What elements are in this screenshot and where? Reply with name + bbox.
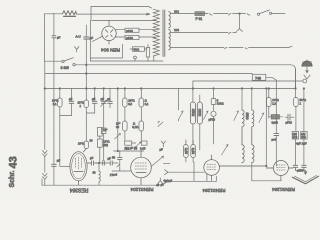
junction bus x60 <box>59 88 61 90</box>
svg-text:μ+5: μ+5 <box>272 138 277 142</box>
resistor R17 box <box>292 132 298 166</box>
switch S2 chevron <box>158 122 163 127</box>
junction bus x235 <box>241 88 243 90</box>
IF transformer T2 winding b <box>197 95 202 150</box>
svg-text:μF: μF <box>57 36 61 40</box>
svg-text:μF13: μF13 <box>209 118 216 122</box>
wire: link 86-94 bottom <box>86 112 94 114</box>
resistor R10 <box>139 89 144 122</box>
antenna symbol AE <box>302 60 312 79</box>
svg-text:μF: μF <box>101 97 105 101</box>
svg-text:10⁴Ω: 10⁴Ω <box>78 142 84 146</box>
connector arrow at y172 <box>165 170 169 175</box>
jack J1 fork <box>75 47 80 53</box>
junction bus x141 <box>141 88 143 90</box>
wire: H line y64.8 to right edge with corner down <box>75 65 295 89</box>
switch S605 <box>45 58 75 66</box>
svg-text:μF: μF <box>160 148 164 152</box>
jack chevrons J4 left rail x42 <box>41 179 43 185</box>
svg-text:0502: 0502 <box>191 109 195 117</box>
svg-text:(14): (14) <box>293 135 298 139</box>
svg-text:F 61: F 61 <box>196 17 203 21</box>
wire: R6-C3 bottom link <box>60 115 72 117</box>
capacitor C10 <box>293 165 298 167</box>
transformer T1 core <box>163 10 165 57</box>
transformer T1 primary winding <box>153 9 159 61</box>
svg-text:μ100: μ100 <box>126 29 133 33</box>
resistor R14 <box>211 89 216 112</box>
svg-text:0,1Ω: 0,1Ω <box>132 125 138 129</box>
wire: tap 2 <box>171 32 229 34</box>
svg-text:748: 748 <box>255 76 261 80</box>
tube V5 RENS1264 <box>266 161 293 181</box>
junction bus x266 <box>266 88 268 90</box>
svg-text:50Ω: 50Ω <box>134 47 140 51</box>
resistor R7 <box>84 100 89 113</box>
svg-text:μ+0,5: μ+0,5 <box>109 173 117 177</box>
svg-text:μF: μF <box>69 97 73 101</box>
resistor R21 <box>191 140 196 162</box>
junction bus x192 <box>192 88 194 90</box>
svg-text:30: 30 <box>116 125 120 129</box>
svg-text:0,30: 0,30 <box>191 148 195 154</box>
wire: V4 bottom L <box>163 162 216 184</box>
main bus y88.5 <box>45 88 296 90</box>
junction bus x45 <box>44 88 46 90</box>
svg-text:μ1: μ1 <box>107 97 111 101</box>
junction bus x249 <box>251 88 253 90</box>
capacitor C13 <box>96 161 118 165</box>
resistor R1 (PSU upper) <box>116 28 155 32</box>
resistor R8 <box>123 89 128 122</box>
junction bus x117 <box>117 88 119 90</box>
junction bus x295 <box>295 88 297 90</box>
capacitor C11 <box>302 165 307 167</box>
wire: y172 link to V4 <box>168 171 204 173</box>
svg-text:0μ08: 0μ08 <box>272 121 279 125</box>
svg-text:RES364: RES364 <box>69 186 88 192</box>
jack J5 fork flipped <box>158 178 163 184</box>
svg-text:RENS1264: RENS1264 <box>202 188 225 193</box>
fork J2 selector <box>237 14 243 32</box>
svg-text:REN 904: REN 904 <box>101 48 120 53</box>
junction bus x213 <box>213 88 215 90</box>
potentiometer P3 arrow <box>136 142 142 147</box>
resistor R22 above L2 <box>97 136 102 163</box>
svg-text:μF: μF <box>90 156 94 160</box>
junction bus x124 <box>124 88 126 90</box>
vertical rail x45 with breaks <box>43 61 48 185</box>
rectifier tube V1 REN904 <box>92 21 116 45</box>
resistor R11 <box>139 121 144 141</box>
switch S5 lever <box>234 111 239 121</box>
wire: PSU inner <box>91 45 123 59</box>
resistor R18 box <box>301 89 307 166</box>
resistor R16 <box>294 69 299 131</box>
resistor R12 horizontal <box>125 141 136 145</box>
potentiometer P2 arrow <box>115 134 121 140</box>
connector pair K4 <box>225 46 293 49</box>
svg-text:μF: μF <box>90 36 94 40</box>
resistor R23 stacked <box>97 128 102 137</box>
capacitor C7 disc <box>211 111 216 144</box>
junction bus x268 <box>268 88 270 90</box>
capacitor C9 <box>285 114 294 120</box>
junction tap-fork <box>239 13 241 15</box>
junction y151 x117.8 <box>117 150 119 152</box>
svg-text:0600: 0600 <box>198 109 202 117</box>
tube V2 RES364 oval <box>60 152 92 186</box>
IF transformer T2 winding a <box>190 89 195 145</box>
junction bus x94 <box>94 88 96 90</box>
capacitor C12 after V2 <box>92 161 101 165</box>
svg-text:93: 93 <box>93 171 97 175</box>
fuse F61 <box>195 12 205 16</box>
svg-text:0500: 0500 <box>245 112 249 119</box>
connector K3 end <box>229 33 237 35</box>
long vertical x266 to V5 <box>265 89 267 168</box>
svg-text:S 605: S 605 <box>61 66 70 70</box>
wire: antenna feed line y81 <box>193 79 307 88</box>
wire: y171 link <box>112 170 131 172</box>
resistor R3 (PSU bottom box) <box>130 47 147 52</box>
resistor R4 vertical <box>146 45 149 62</box>
switch S3 lever <box>179 89 184 122</box>
tube V3 RENS1204 <box>131 151 152 185</box>
resistor R9 <box>123 121 128 141</box>
wire: mains feed over box <box>91 7 152 21</box>
wire: earth lead x53.9 with capacitor C15 <box>52 13 56 164</box>
transformer T1 secondary winding <box>169 12 171 50</box>
trimmer arrow T <box>222 145 229 156</box>
wire: antenna lead down left <box>43 14 45 61</box>
svg-text:μF: μF <box>92 97 96 101</box>
IF transformer T3 winding b <box>252 89 254 164</box>
capacitor C5 <box>101 89 108 161</box>
PSU box outline <box>91 21 164 62</box>
svg-text:(20): (20) <box>301 135 306 139</box>
capacitor C3 <box>69 89 74 116</box>
junction H73 x86 <box>86 73 88 75</box>
svg-text:0,1: 0,1 <box>53 102 57 106</box>
svg-text:0,5: 0,5 <box>128 102 132 106</box>
junction bus x303 <box>303 88 305 90</box>
wire: V5 bottom loop to coil <box>252 163 281 181</box>
switch S7 at V3 <box>151 156 163 166</box>
resistor R19 above V2 <box>83 113 88 152</box>
resistor R6 with label <box>58 89 63 167</box>
wire: tube V1 to resistors <box>115 30 116 37</box>
resistor R20 left of V4 <box>184 140 189 162</box>
junction H64 x86 <box>86 64 88 66</box>
ground chassis arrow <box>292 167 318 184</box>
capacitor C14 small <box>114 151 144 171</box>
svg-text:0,1: 0,1 <box>145 102 149 106</box>
switch S6 lever <box>259 113 264 123</box>
jack J3 fork <box>161 141 165 147</box>
svg-text:μF: μF <box>108 156 112 160</box>
wire: tap 1 to fuse <box>171 13 196 15</box>
junction bus x86 <box>86 88 88 90</box>
resistor R15 <box>267 89 272 119</box>
svg-text:(30): (30) <box>103 143 108 147</box>
svg-text:A·U: A·U <box>76 35 81 39</box>
connector pair K1 <box>205 14 229 16</box>
svg-text:0,05: 0,05 <box>140 147 146 151</box>
junction x266 y166 <box>266 165 268 167</box>
wire: tap 3 <box>171 47 225 49</box>
lamp terminal P1 <box>134 56 137 61</box>
connector pair K2 <box>229 14 250 16</box>
wire: bottom rail left <box>42 184 159 186</box>
svg-text:50: 50 <box>112 156 116 160</box>
tube V4 RENS1264 <box>204 155 266 181</box>
svg-text:100Ω: 100Ω <box>217 102 224 106</box>
IF transformer T3 winding a <box>242 89 244 164</box>
inductor L2 <box>99 163 100 185</box>
junction bus x103 <box>103 88 105 90</box>
resistor R13 <box>142 141 148 145</box>
svg-text:101: 101 <box>174 10 179 14</box>
capacitor C1 on left PSU lead <box>84 25 89 61</box>
svg-text:RENS1264: RENS1264 <box>272 187 295 192</box>
capacitor C6 <box>108 89 113 109</box>
resistor R5 748 box <box>252 74 276 88</box>
switch S4 lever <box>204 111 209 120</box>
capacitor C8 <box>269 115 283 119</box>
svg-text:μF13: μF13 <box>286 121 293 125</box>
capacitor C4 <box>92 89 97 114</box>
vertical rail x117.8 long <box>117 89 119 152</box>
svg-text:30: 30 <box>90 139 94 143</box>
wire: H line y73.5 <box>45 73 252 75</box>
svg-text:μ100: μ100 <box>126 36 133 40</box>
switch S1 mains <box>257 10 285 15</box>
antenna coil L1 top-left <box>44 11 150 16</box>
capacitor C2 in rail x55.5 <box>52 164 57 185</box>
svg-text:0,1 μF (6): 0,1 μF (6) <box>125 146 137 150</box>
svg-text:0,80: 0,80 <box>184 148 188 154</box>
svg-text:43: 43 <box>8 156 20 168</box>
svg-text:RENS1204: RENS1204 <box>130 187 153 192</box>
svg-text:4μF 2μF: 4μF 2μF <box>296 142 307 146</box>
svg-text:Schr.: Schr. <box>9 170 16 187</box>
junction x99 y163 <box>98 162 100 164</box>
capacitor C16 on x276 <box>274 89 279 167</box>
svg-text:μF 45: μF 45 <box>156 183 164 187</box>
svg-text:102: 102 <box>174 28 179 32</box>
vertical rail x86.3 <box>85 61 87 100</box>
resistor R2 (PSU lower) <box>116 35 155 39</box>
